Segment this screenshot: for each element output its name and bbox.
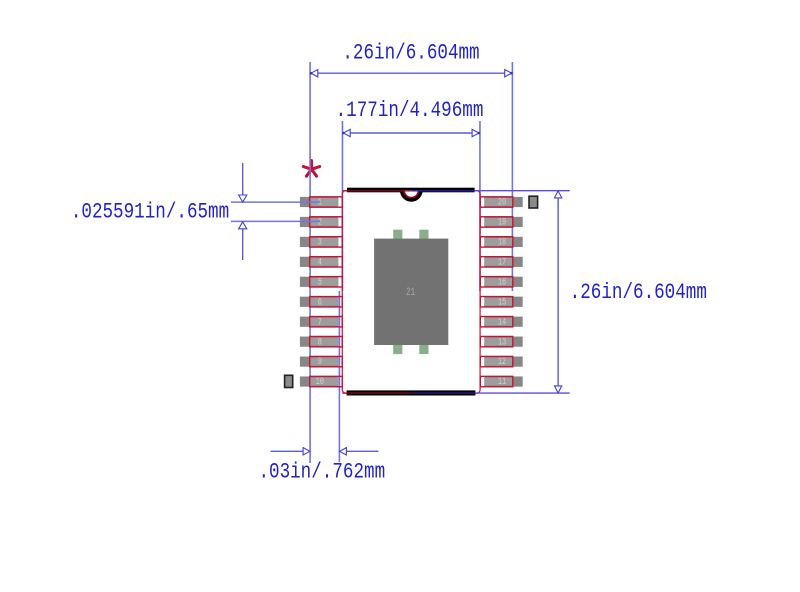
pin 11 outline bbox=[480, 376, 513, 386]
pin 10 outline bbox=[310, 376, 343, 386]
dimension text .177in/4.496mm bbox=[336, 98, 484, 124]
paste square top-right bbox=[419, 230, 428, 239]
extension lines pitch dim bbox=[231, 201, 320, 203]
pin 8 number bbox=[318, 336, 322, 348]
dimension line .26in/6.604mm top bbox=[310, 70, 513, 77]
pad 14 copper bbox=[484, 317, 522, 327]
svg-text:19: 19 bbox=[498, 216, 506, 228]
pin 15 number bbox=[498, 296, 506, 308]
pin 3 number bbox=[318, 236, 322, 248]
body top edge red segment bbox=[342, 190, 347, 192]
pin 20 outline bbox=[480, 197, 513, 207]
pin 18 outline bbox=[480, 237, 513, 247]
pin 19 outline bbox=[480, 217, 513, 227]
dimension text .26in/6.604mm right bbox=[570, 280, 707, 306]
pin 16 number bbox=[498, 276, 506, 288]
pin 11 number bbox=[498, 376, 506, 388]
marker rectangle near pin 20 bbox=[529, 196, 538, 208]
pad 8 copper bbox=[300, 337, 338, 347]
extension line: top-dim left / bottom-dim left (x=310) bbox=[309, 62, 311, 463]
extension line: inner-dim left (x=342.7) bbox=[341, 121, 343, 291]
svg-text:7: 7 bbox=[318, 316, 322, 328]
pin 14 number bbox=[498, 316, 506, 328]
pin 14 outline bbox=[480, 317, 513, 327]
pad 5 copper bbox=[300, 277, 338, 287]
body bottom edge bar bbox=[347, 390, 476, 395]
pin 13 outline bbox=[480, 336, 513, 346]
pad 15 copper bbox=[484, 297, 522, 307]
pin 18 number bbox=[498, 236, 506, 248]
svg-text:.03in/.762mm: .03in/.762mm bbox=[258, 460, 385, 486]
pad 9 copper bbox=[300, 357, 338, 367]
svg-text:.26in/6.604mm: .26in/6.604mm bbox=[570, 280, 707, 306]
svg-text:.025591in/.65mm: .025591in/.65mm bbox=[71, 200, 229, 226]
pin 6 number bbox=[318, 296, 322, 308]
pin 1 outline bbox=[310, 197, 343, 207]
svg-text:15: 15 bbox=[498, 296, 506, 308]
extension line: bottom-dim right (x=339.4) bbox=[338, 291, 340, 462]
svg-text:5: 5 bbox=[318, 276, 322, 288]
pad 18 copper bbox=[484, 237, 522, 247]
pin 20 number bbox=[498, 197, 506, 209]
pad 19 copper bbox=[484, 217, 522, 227]
svg-text:13: 13 bbox=[498, 336, 506, 348]
extension line: top-dim right (x=512.4) bbox=[511, 62, 513, 291]
pad 11 copper bbox=[484, 376, 522, 386]
paste square bottom-left bbox=[393, 345, 402, 354]
pin 16 outline bbox=[480, 277, 513, 287]
paste square top-left bbox=[393, 230, 402, 239]
pin 19 number bbox=[498, 216, 506, 228]
pin 4 outline bbox=[310, 257, 343, 267]
pin 10 number bbox=[316, 376, 324, 388]
svg-text:16: 16 bbox=[498, 276, 506, 288]
svg-text:.26in/6.604mm: .26in/6.604mm bbox=[342, 41, 479, 67]
package body outline bbox=[342, 191, 480, 394]
svg-text:21: 21 bbox=[406, 285, 415, 298]
svg-text:6: 6 bbox=[318, 296, 322, 308]
pin 9 number bbox=[318, 356, 322, 368]
paste square bottom-right bbox=[419, 345, 428, 354]
dimension text .025591in/.65mm bbox=[71, 200, 229, 226]
dimension text .03in/.762mm bbox=[258, 460, 385, 486]
pad 17 copper bbox=[484, 257, 522, 267]
svg-text:10: 10 bbox=[316, 376, 324, 388]
pin 4 number bbox=[318, 256, 322, 268]
dimension line .03in/.762mm bbox=[271, 448, 379, 455]
pad 12 copper bbox=[484, 357, 522, 367]
svg-text:20: 20 bbox=[498, 197, 506, 209]
dimension line pitch bbox=[239, 163, 247, 260]
marker rectangle near pin 10 bbox=[285, 375, 293, 387]
dimension line .26in/6.604mm right bbox=[554, 191, 561, 393]
pin 5 number bbox=[318, 276, 322, 288]
pad 13 copper bbox=[484, 337, 522, 347]
svg-text:4: 4 bbox=[318, 256, 322, 268]
dimension text .26in/6.604mm top bbox=[342, 41, 479, 67]
thermal pad label 21 bbox=[406, 285, 415, 298]
dimension line .177in/4.496mm bbox=[342, 129, 480, 136]
svg-text:14: 14 bbox=[498, 316, 506, 328]
top extension blue segment bbox=[411, 190, 474, 192]
pin-1 notch semicircle bbox=[400, 190, 423, 201]
pin 1 asterisk marker bbox=[303, 161, 319, 177]
pin 17 outline bbox=[480, 257, 513, 267]
pin 12 outline bbox=[480, 356, 513, 366]
pad 2 copper bbox=[300, 217, 338, 227]
pin 15 outline bbox=[480, 297, 513, 307]
pin 7 number bbox=[318, 316, 322, 328]
thermal pad 21 bbox=[374, 239, 448, 345]
pin 12 number bbox=[498, 356, 506, 368]
extension line: inner-dim right (x=479.6) bbox=[479, 121, 481, 291]
pin 6 outline bbox=[310, 297, 343, 307]
pad 3 copper bbox=[300, 237, 338, 247]
pin 5 outline bbox=[310, 277, 343, 287]
bottom extension blue segment bbox=[411, 392, 475, 394]
pin 17 number bbox=[498, 256, 506, 268]
pin 3 outline bbox=[310, 237, 343, 247]
pad 7 copper bbox=[300, 317, 338, 327]
pin 2 outline bbox=[310, 217, 343, 227]
body top edge bar bbox=[347, 188, 475, 193]
pad 16 copper bbox=[484, 277, 522, 287]
svg-text:8: 8 bbox=[318, 336, 322, 348]
svg-text:9: 9 bbox=[318, 356, 322, 368]
pin 8 outline bbox=[310, 336, 343, 346]
svg-text:.177in/4.496mm: .177in/4.496mm bbox=[336, 98, 484, 124]
body bottom edge red segment bbox=[342, 392, 347, 394]
pin 7 outline bbox=[310, 317, 343, 327]
pin 13 number bbox=[498, 336, 506, 348]
svg-text:18: 18 bbox=[498, 236, 506, 248]
pin 1 number bbox=[318, 197, 322, 209]
pad 10 copper bbox=[300, 376, 338, 386]
pad 20 copper bbox=[484, 197, 522, 207]
pad 6 copper bbox=[300, 297, 338, 307]
svg-text:3: 3 bbox=[318, 236, 322, 248]
pad 4 copper bbox=[300, 257, 338, 267]
pin 2 number bbox=[318, 216, 322, 228]
svg-text:2: 2 bbox=[318, 216, 322, 228]
pin 9 outline bbox=[310, 356, 343, 366]
svg-text:11: 11 bbox=[498, 376, 506, 388]
svg-text:17: 17 bbox=[498, 256, 506, 268]
pad 1 copper bbox=[300, 197, 338, 207]
svg-text:12: 12 bbox=[498, 356, 506, 368]
